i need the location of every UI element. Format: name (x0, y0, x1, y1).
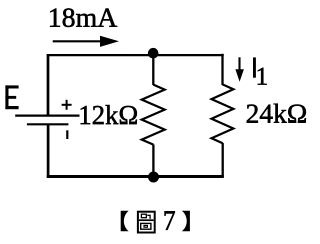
current arrow 18mA (top) (53, 40, 103, 42)
node: bottom junction dot (148, 172, 159, 183)
wire: middle branch upper (152, 54, 154, 85)
current arrow I1 (down, right branch) (238, 57, 240, 71)
wire: left vertical lower (battery bottom plate to bottom wire) (47, 125, 50, 178)
label I1: subscript 1 (258, 68, 267, 85)
wire: top horizontal (47, 54, 224, 56)
label 24kOhm (247, 104, 306, 123)
label I1: I bar (253, 57, 256, 77)
battery minus tick (66, 130, 68, 139)
label 18mA (50, 8, 117, 27)
battery E: bottom plate (short, negative) (27, 123, 69, 125)
resistor R1 12kOhm zigzag (142, 85, 165, 145)
wire: right vertical lower (222, 143, 224, 177)
label E (drawn sans-serif E) (5, 85, 18, 109)
wire: left vertical upper (to battery top plate) (47, 54, 50, 115)
wire: bottom horizontal (47, 175, 224, 178)
caption left lenticular bracket (121, 211, 129, 232)
wire: right vertical upper (221, 54, 223, 85)
label 12kOhm (81, 105, 137, 124)
caption right lenticular bracket (182, 211, 190, 232)
resistor R2 24kOhm zigzag (212, 84, 234, 143)
battery plus sign (62, 104, 72, 106)
node: top junction dot (148, 48, 159, 59)
caption number 7 (165, 211, 175, 229)
wire: middle branch lower (152, 144, 154, 177)
battery E: top plate (long, positive) (15, 114, 79, 116)
caption glyph: Chinese character Tu (figure) drawn (138, 212, 155, 233)
